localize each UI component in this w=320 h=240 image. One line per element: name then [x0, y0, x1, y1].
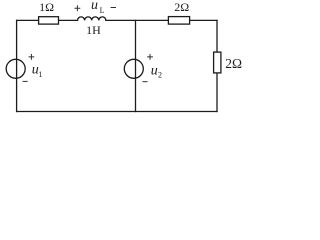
- svg-text:u: u: [151, 63, 158, 78]
- svg-text:2Ω: 2Ω: [174, 0, 189, 14]
- svg-text:L: L: [100, 6, 105, 15]
- svg-text:1H: 1H: [86, 23, 101, 37]
- svg-text:2Ω: 2Ω: [225, 56, 242, 71]
- svg-text:1: 1: [38, 70, 42, 79]
- svg-text:1Ω: 1Ω: [39, 0, 54, 14]
- svg-text:u: u: [91, 0, 98, 13]
- svg-text:2: 2: [158, 70, 162, 79]
